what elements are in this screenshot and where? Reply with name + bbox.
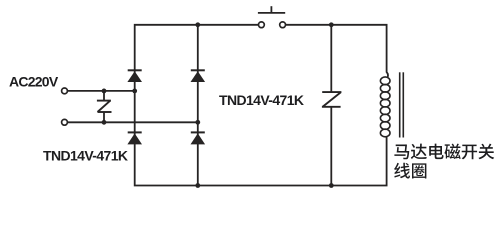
coil L1 core lines bbox=[400, 72, 404, 137]
wire varistor RV2 top lead bbox=[330, 25, 332, 92]
text 开 bbox=[462, 145, 477, 160]
wire AC line bottom bbox=[68, 121, 198, 123]
wire varistor RV2 bottom lead bbox=[330, 107, 332, 186]
text 马 bbox=[394, 144, 409, 159]
node junction left branch AC top bbox=[132, 89, 137, 94]
diode D3 lower left bbox=[127, 132, 142, 144]
node junction right branch AC bottom bbox=[195, 120, 200, 125]
node junction varistor RV2 bottom rail bbox=[329, 183, 334, 188]
svg-text:AC220V: AC220V bbox=[9, 74, 59, 90]
node junction varistor RV1 bottom bbox=[102, 120, 107, 125]
varistor RV2 symbol TND14V-471K bbox=[322, 92, 342, 107]
node junction varistor RV2 top rail bbox=[329, 22, 334, 27]
terminal AC bottom bbox=[62, 119, 68, 125]
terminal AC top bbox=[62, 88, 68, 94]
wire varistor RV1 top lead bbox=[103, 91, 105, 101]
label coil name 马达电磁开关线圈 bbox=[394, 144, 494, 179]
diode D2 upper right bbox=[191, 70, 206, 82]
diode D4 lower right bbox=[191, 132, 206, 144]
text 达 bbox=[411, 144, 427, 160]
node junction right branch top rail bbox=[195, 22, 200, 27]
coil L1 winding bbox=[380, 77, 390, 137]
wire varistor RV1 bottom lead bbox=[103, 112, 105, 122]
diode D1 upper left bbox=[127, 70, 142, 82]
wire top rail left segment, left branch, bottom rail, coil bottom lead bbox=[135, 25, 387, 186]
svg-text:TND14V-471K: TND14V-471K bbox=[43, 148, 128, 164]
text 线 bbox=[394, 163, 410, 179]
text 电 bbox=[429, 144, 443, 160]
wire AC line top bbox=[68, 90, 135, 92]
text 磁 bbox=[444, 144, 460, 160]
text 圈 bbox=[412, 163, 426, 178]
wire top rail right segment and coil top lead bbox=[285, 25, 388, 78]
text 关 bbox=[478, 144, 494, 160]
wire right branch vertical bbox=[197, 25, 199, 186]
svg-text:TND14V-471K: TND14V-471K bbox=[219, 92, 304, 108]
varistor RV1 symbol TND14V-471K bbox=[97, 101, 112, 112]
node junction right branch bottom rail bbox=[195, 183, 200, 188]
pushbutton switch SB bbox=[258, 6, 286, 28]
node junction varistor RV1 top bbox=[102, 89, 107, 94]
